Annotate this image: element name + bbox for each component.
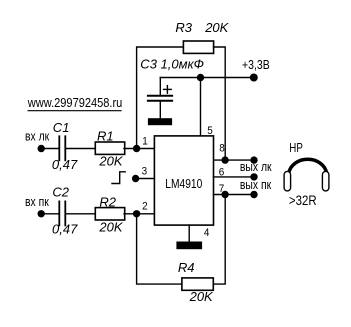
capacitor C3 bottom lead: [159, 101, 161, 118]
wire pin 6 row: [214, 176, 255, 178]
svg-text:8: 8: [219, 143, 225, 155]
svg-text:0,47: 0,47: [52, 157, 78, 172]
svg-text:5: 5: [207, 125, 213, 137]
svg-text:7: 7: [219, 184, 225, 196]
node C3 / pin 5 junction: [197, 74, 204, 81]
svg-text:20K: 20K: [189, 289, 214, 304]
svg-text:вых лк: вых лк: [240, 160, 272, 174]
node pin 7 junction: [221, 191, 228, 198]
resistor R3 body: [183, 41, 213, 53]
op-amp U1 LM4910 body: [154, 136, 213, 225]
ground below pin 4: [176, 242, 202, 250]
wire R2 to pin 2: [124, 213, 154, 215]
node +3.3V terminal: [250, 74, 258, 82]
wire R4 loop left vertical and bottom: [137, 214, 182, 284]
svg-text:C2: C2: [52, 185, 69, 200]
svg-text:2: 2: [142, 201, 148, 213]
svg-text:20K: 20K: [98, 153, 123, 168]
svg-text:www.299792458.ru: www.299792458.ru: [27, 95, 122, 110]
node pin 1 junction: [133, 145, 140, 152]
ground below C3: [148, 118, 172, 125]
capacitor C3 plates: [148, 95, 172, 97]
svg-text:C1: C1: [53, 120, 70, 135]
wire pin 7 row: [214, 194, 255, 196]
svg-text:6: 6: [219, 167, 225, 179]
svg-text:вх лк: вх лк: [25, 129, 50, 143]
wire input right to C2: [41, 213, 58, 215]
wire pin 8 row: [214, 159, 255, 161]
wire C2 to R2: [66, 213, 95, 215]
wire C1 to R1: [66, 148, 95, 150]
svg-text:R4: R4: [178, 260, 195, 275]
headphones HP symbol: [284, 159, 329, 191]
svg-text:R3: R3: [175, 20, 192, 35]
node input left terminal: [38, 145, 45, 152]
resistor R1 body: [95, 142, 124, 154]
capacitor C3 top lead: [159, 78, 161, 96]
svg-text:1: 1: [142, 136, 148, 148]
wire R4 to right vertical up to pin 7: [213, 195, 225, 285]
svg-text:20K: 20K: [98, 220, 123, 235]
node output left terminal: [250, 156, 257, 163]
capacitor C1 plates: [58, 136, 60, 160]
wire input left to C1: [41, 148, 58, 150]
svg-text:0,47: 0,47: [52, 221, 78, 236]
wire pin 3: [136, 178, 155, 180]
shutdown step symbol at pin 3: [112, 172, 125, 184]
svg-text:вх пк: вх пк: [25, 195, 50, 209]
node input right terminal: [38, 210, 45, 217]
node pin 6 terminal: [250, 173, 257, 180]
capacitor C3 polarity plus: [164, 88, 172, 90]
svg-text:+3,3В: +3,3В: [242, 57, 270, 72]
svg-text:С3 1,0мкФ: С3 1,0мкФ: [140, 57, 204, 72]
wire C3 top to +3.3V rail: [160, 77, 254, 79]
svg-text:4: 4: [204, 227, 210, 239]
wire R3 to right vertical down to pin 8: [214, 47, 226, 160]
node pin 8 junction: [221, 156, 228, 163]
wire pin 5 vertical: [200, 78, 202, 136]
svg-text:R2: R2: [99, 195, 116, 210]
svg-text:HP: HP: [289, 142, 303, 155]
node pin 2 junction: [133, 210, 140, 217]
svg-text:вых пк: вых пк: [240, 178, 272, 192]
resistor R4 body: [182, 278, 213, 290]
wire pin 4 lead: [188, 225, 190, 241]
site link www.299792458.ru: [27, 95, 122, 111]
node pin 3 terminal: [132, 175, 139, 182]
svg-text:R1: R1: [97, 128, 114, 143]
svg-text:20K: 20K: [204, 20, 229, 35]
svg-text:>32R: >32R: [289, 193, 317, 208]
node output right terminal: [250, 191, 257, 198]
resistor R2 body: [95, 208, 124, 220]
svg-text:LM4910: LM4910: [165, 178, 202, 191]
capacitor C2 plates: [58, 201, 60, 225]
wire R3 loop left vertical and top: [137, 47, 184, 149]
svg-text:3: 3: [142, 166, 148, 178]
wire R1 to pin 1: [124, 148, 154, 150]
